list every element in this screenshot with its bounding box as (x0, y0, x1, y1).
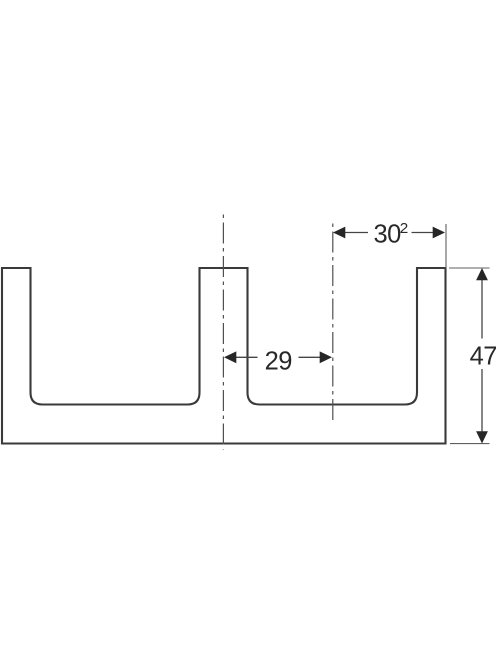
centerline B (right trough axis) (332, 224, 334, 421)
dimension 29 line segments (236, 356, 258, 358)
dimension 30^2 right arrow (433, 227, 445, 239)
extension line for 47 (bottom, horizontal) (450, 443, 490, 445)
dimension 30^2 left arrow (333, 227, 345, 239)
dimension 29 left arrow (224, 351, 236, 363)
svg-text:30: 30 (374, 220, 402, 248)
extension line for 47 (top, horizontal) (449, 267, 490, 269)
dimension 30^2 line segments (345, 232, 369, 234)
centerline A (middle web axis) (222, 215, 224, 450)
dimension 47 top arrow (476, 268, 488, 280)
dimension 47 bottom arrow (476, 431, 488, 443)
extension line for 30 (vertical, right) (445, 224, 447, 268)
svg-text:47: 47 (470, 343, 496, 371)
dimension 29 right arrow (320, 351, 332, 363)
dimension 47 line segments (481, 280, 483, 339)
svg-text:29: 29 (265, 348, 292, 376)
profile outline (double-trough cross-section) (2, 268, 446, 444)
svg-text:2: 2 (400, 221, 409, 237)
